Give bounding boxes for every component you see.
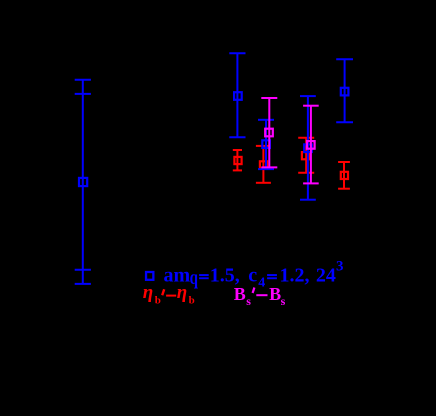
data point P2: blue point at x=237.4 bbox=[229, 53, 245, 137]
svg-text:q: q bbox=[190, 266, 198, 289]
data point P5: blue point at x=266.0 bbox=[258, 120, 274, 169]
legend line 2b: B_s' - B_s (magenta) bbox=[234, 284, 286, 308]
svg-text:η: η bbox=[177, 282, 187, 303]
svg-text:B: B bbox=[234, 284, 246, 304]
svg-text:4: 4 bbox=[258, 276, 265, 291]
legend line 2a: eta_b' - eta_b (red) bbox=[143, 282, 195, 307]
data point P8: magenta point at x=310.9 bbox=[303, 106, 319, 184]
svg-text:3: 3 bbox=[336, 258, 344, 274]
data point P7: blue point at x=307.9 bbox=[300, 96, 316, 200]
data point P3: red point at x=237.4 bbox=[233, 150, 242, 170]
svg-text:1.2,: 1.2, bbox=[280, 265, 310, 287]
svg-text:B: B bbox=[269, 284, 281, 304]
data point P6: red point at x=263.4 bbox=[256, 146, 271, 183]
svg-text:b: b bbox=[155, 295, 161, 307]
data point P10: blue point at x=344.6 bbox=[336, 59, 353, 122]
legend line 1: am_Q=1.5, c_4=1.2, 24^3 (blue) bbox=[164, 258, 344, 290]
svg-text:24: 24 bbox=[316, 265, 336, 287]
svg-text:b: b bbox=[189, 295, 195, 307]
data point P11: red point at x=344.0 bbox=[338, 162, 350, 189]
svg-text:η: η bbox=[143, 282, 153, 303]
legend marker: blue open square bbox=[146, 272, 153, 280]
data point P4: magenta point at x=269.3 bbox=[261, 98, 277, 167]
svg-text:s: s bbox=[246, 294, 251, 308]
svg-text:s: s bbox=[281, 294, 286, 308]
data point P1: blue eta_b prime splitting, double caps at x=82.8 bbox=[75, 80, 91, 284]
svg-text:c: c bbox=[248, 265, 257, 287]
data point P9: red point at x=306.2 bbox=[298, 138, 314, 173]
